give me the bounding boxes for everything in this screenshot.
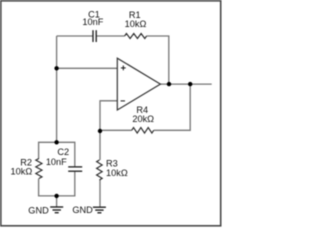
- svg-text:GND: GND: [28, 205, 49, 215]
- svg-text:20kΩ: 20kΩ: [132, 114, 154, 124]
- svg-text:10nF: 10nF: [82, 17, 103, 27]
- svg-text:10nF: 10nF: [46, 157, 67, 167]
- svg-text:GND: GND: [72, 205, 93, 215]
- svg-text:C2: C2: [57, 147, 69, 157]
- svg-text:10kΩ: 10kΩ: [125, 19, 147, 29]
- svg-text:10kΩ: 10kΩ: [11, 166, 33, 176]
- svg-text:10kΩ: 10kΩ: [106, 168, 128, 178]
